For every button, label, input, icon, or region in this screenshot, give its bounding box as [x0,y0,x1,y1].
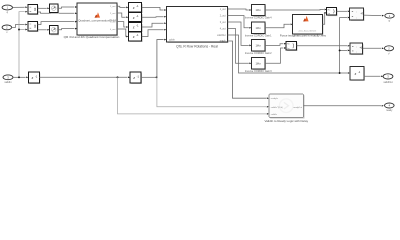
wire A2.out2 to big block port3 [38,21,78,25]
svg-text:Force imaginary part is exactl: Force imaginary part is exactly zero [280,34,327,38]
inport 3 validIn (oval) [3,75,13,84]
wire C2 to mux M2.p1 [297,45,350,47]
unit delay Z2 (z^-1) [128,13,142,23]
svg-text:ValidIn to Ready Logic with De: ValidIn to Ready Logic with Delay [265,119,309,123]
caption of U3 [280,34,327,38]
wire Z6 to Z7 with junction at x=118 [39,76,130,78]
wire G2 to combine C2.p1 [265,43,286,46]
wire C1 to mux M1.p1 [337,10,350,12]
inport 2 (oval, signal v) [2,25,12,34]
combine C1 (Re-Im to complex) [327,8,338,16]
block B2 (data type convert) [50,25,59,34]
gain block 1/Kn #3 [252,40,266,52]
label 'Inverse CORDIC Gain4' [245,16,272,20]
svg-text:readyIn: readyIn [271,98,279,100]
gain block 1/Kn #1 [252,4,266,16]
wire A1.out2 to big block port2 [38,12,78,14]
label 'Inverse CORDIC Gain1' [245,33,272,37]
outport v' (oval 2) [384,46,393,56]
inport 1 (oval, signal q) [2,5,12,14]
svg-text:Inverse CORDIC Gain4: Inverse CORDIC Gain4 [245,16,272,20]
outport q' (oval 1) [385,13,394,22]
wire G3 to combine C2.p2 [265,47,286,63]
wire G4(top) to combine C1.p1 [265,9,327,11]
svg-text:Inverse CORDIC Gain1: Inverse CORDIC Gain1 [245,33,272,37]
unit delay Z5 (z^-1) before validOut [350,67,364,81]
wire U4.readyOut to outport ready [304,105,384,107]
combine C2 (Re-Im to complex) [286,42,297,51]
block U1 MATLAB function 'Quadrant_compensation' [77,3,118,35]
block U3 MATLAB function 'force imaginary zero' [293,15,323,35]
svg-text:ready: ready [386,109,393,112]
caption of U4 [265,119,309,123]
wire trunk down to ready-logic p2 [157,77,269,107]
svg-text:validIn: validIn [4,81,12,84]
svg-text:Im: Im [328,13,331,15]
svg-text:Inverse CORDIC Gain3: Inverse CORDIC Gain3 [245,69,272,73]
svg-text:Q'B, R Row Rotations - Real: Q'B, R Row Rotations - Real [176,45,218,49]
mux M1 (vector concat to q') [350,8,364,20]
gain block 1/Kn #2 [252,22,266,34]
wire Z4 to U2.p4 [142,29,167,37]
mux M2 (vector concat to v') [350,43,363,55]
svg-text:1/Kn: 1/Kn [256,43,262,47]
caption of U2 [176,45,218,49]
wire inport2 to A2.p1 [12,24,28,28]
unit delay Z1 (z^-1) [128,3,142,13]
caption of U1 [64,35,120,39]
block B1 (data type convert) [50,4,59,13]
wire M1 to outport q' [363,15,384,17]
svg-text:1/Kn: 1/Kn [256,61,262,65]
wire A1.out1 to B1 [38,7,50,9]
wire Z2 to U2.p2 [142,16,167,18]
wire U2.ready to ready-logic p1 [228,41,269,99]
wire U2.out3 to gain G2 [228,22,252,46]
wire U1.out2 to Z2 [117,13,128,18]
gain block 1/Kn #4 [252,58,266,70]
wire U1.out3 to Z3 [117,22,128,28]
svg-text:qdsIn: qdsIn [169,39,175,41]
svg-text:QR 3rd and 4th Quadrant Compen: QR 3rd and 4th Quadrant Compensation [64,35,120,39]
wire inport1 to A1.p1 [13,6,28,8]
wire U1.out1 to Z1 [117,6,128,8]
wire G1 to force-block input [265,23,293,27]
unit delay Z4 (z^-1) [128,32,142,42]
wire junction x=118 down to ready-logic p3 [118,77,269,114]
unit delay Z6 (z^-1) validIn delay 1 [28,72,40,84]
wire U2.out4 to gain G3 [228,29,252,65]
wire B2 to big block port4 [58,28,77,30]
wire validIn to Z6 with junction to rising trunk [13,76,28,78]
outport validOut (oval 3) [383,74,393,84]
wire Z1 to U2.p1 [142,7,167,10]
wire A2.out1 to B2 [38,29,50,31]
unit delay Z3 (z^-1) [128,23,142,32]
wire Z5 to outport validOut [364,75,383,77]
svg-text:validIn: validIn [271,114,278,116]
svg-text:validOut: validOut [383,81,392,84]
outport ready (oval 4) [385,103,395,112]
wire trunk up to U2.qdsIn port [157,39,166,78]
label 'Inverse CORDIC Gain2' [245,51,272,55]
wire Z3 to U2.p3 [142,22,167,27]
wire U3 out to combine C1.p2 [322,12,326,24]
wire Z7 to vertical trunk x=157 [141,76,158,78]
wire U2.out1 to gain G4 [228,9,252,11]
wire M2 to outport v' [363,47,385,49]
block U2 'Q'B, R Row Rotations - Real' [167,6,229,42]
wire U2.validOut trunk to Z5 with branches to mux M1.p2 and M2.p2 [228,17,350,74]
svg-text:1/Kn: 1/Kn [256,26,262,30]
svg-text:Inverse CORDIC Gain2: Inverse CORDIC Gain2 [245,51,272,55]
label 'Inverse CORDIC Gain3' [245,69,272,73]
wire U1.out4 to Z4 [117,29,128,37]
unit delay Z7 (z^-1) validIn delay 2 [130,72,142,84]
wire B1 to big block port1 [58,6,77,8]
wire validIn rising trunk (x=19) with branches to A1.p2 and A2.p2 [18,11,27,77]
wire U2.out2 to gain G1 [228,16,252,29]
block A1 (complex rotate prep, 2-in) [28,5,38,15]
block A2 (complex rotate prep, 2-in) [28,21,38,31]
svg-text:Im: Im [287,48,290,50]
svg-text:1/Kn: 1/Kn [256,8,262,12]
block U4 'ValidIn to Ready Logic with Delay' (subsystem) [269,94,304,118]
